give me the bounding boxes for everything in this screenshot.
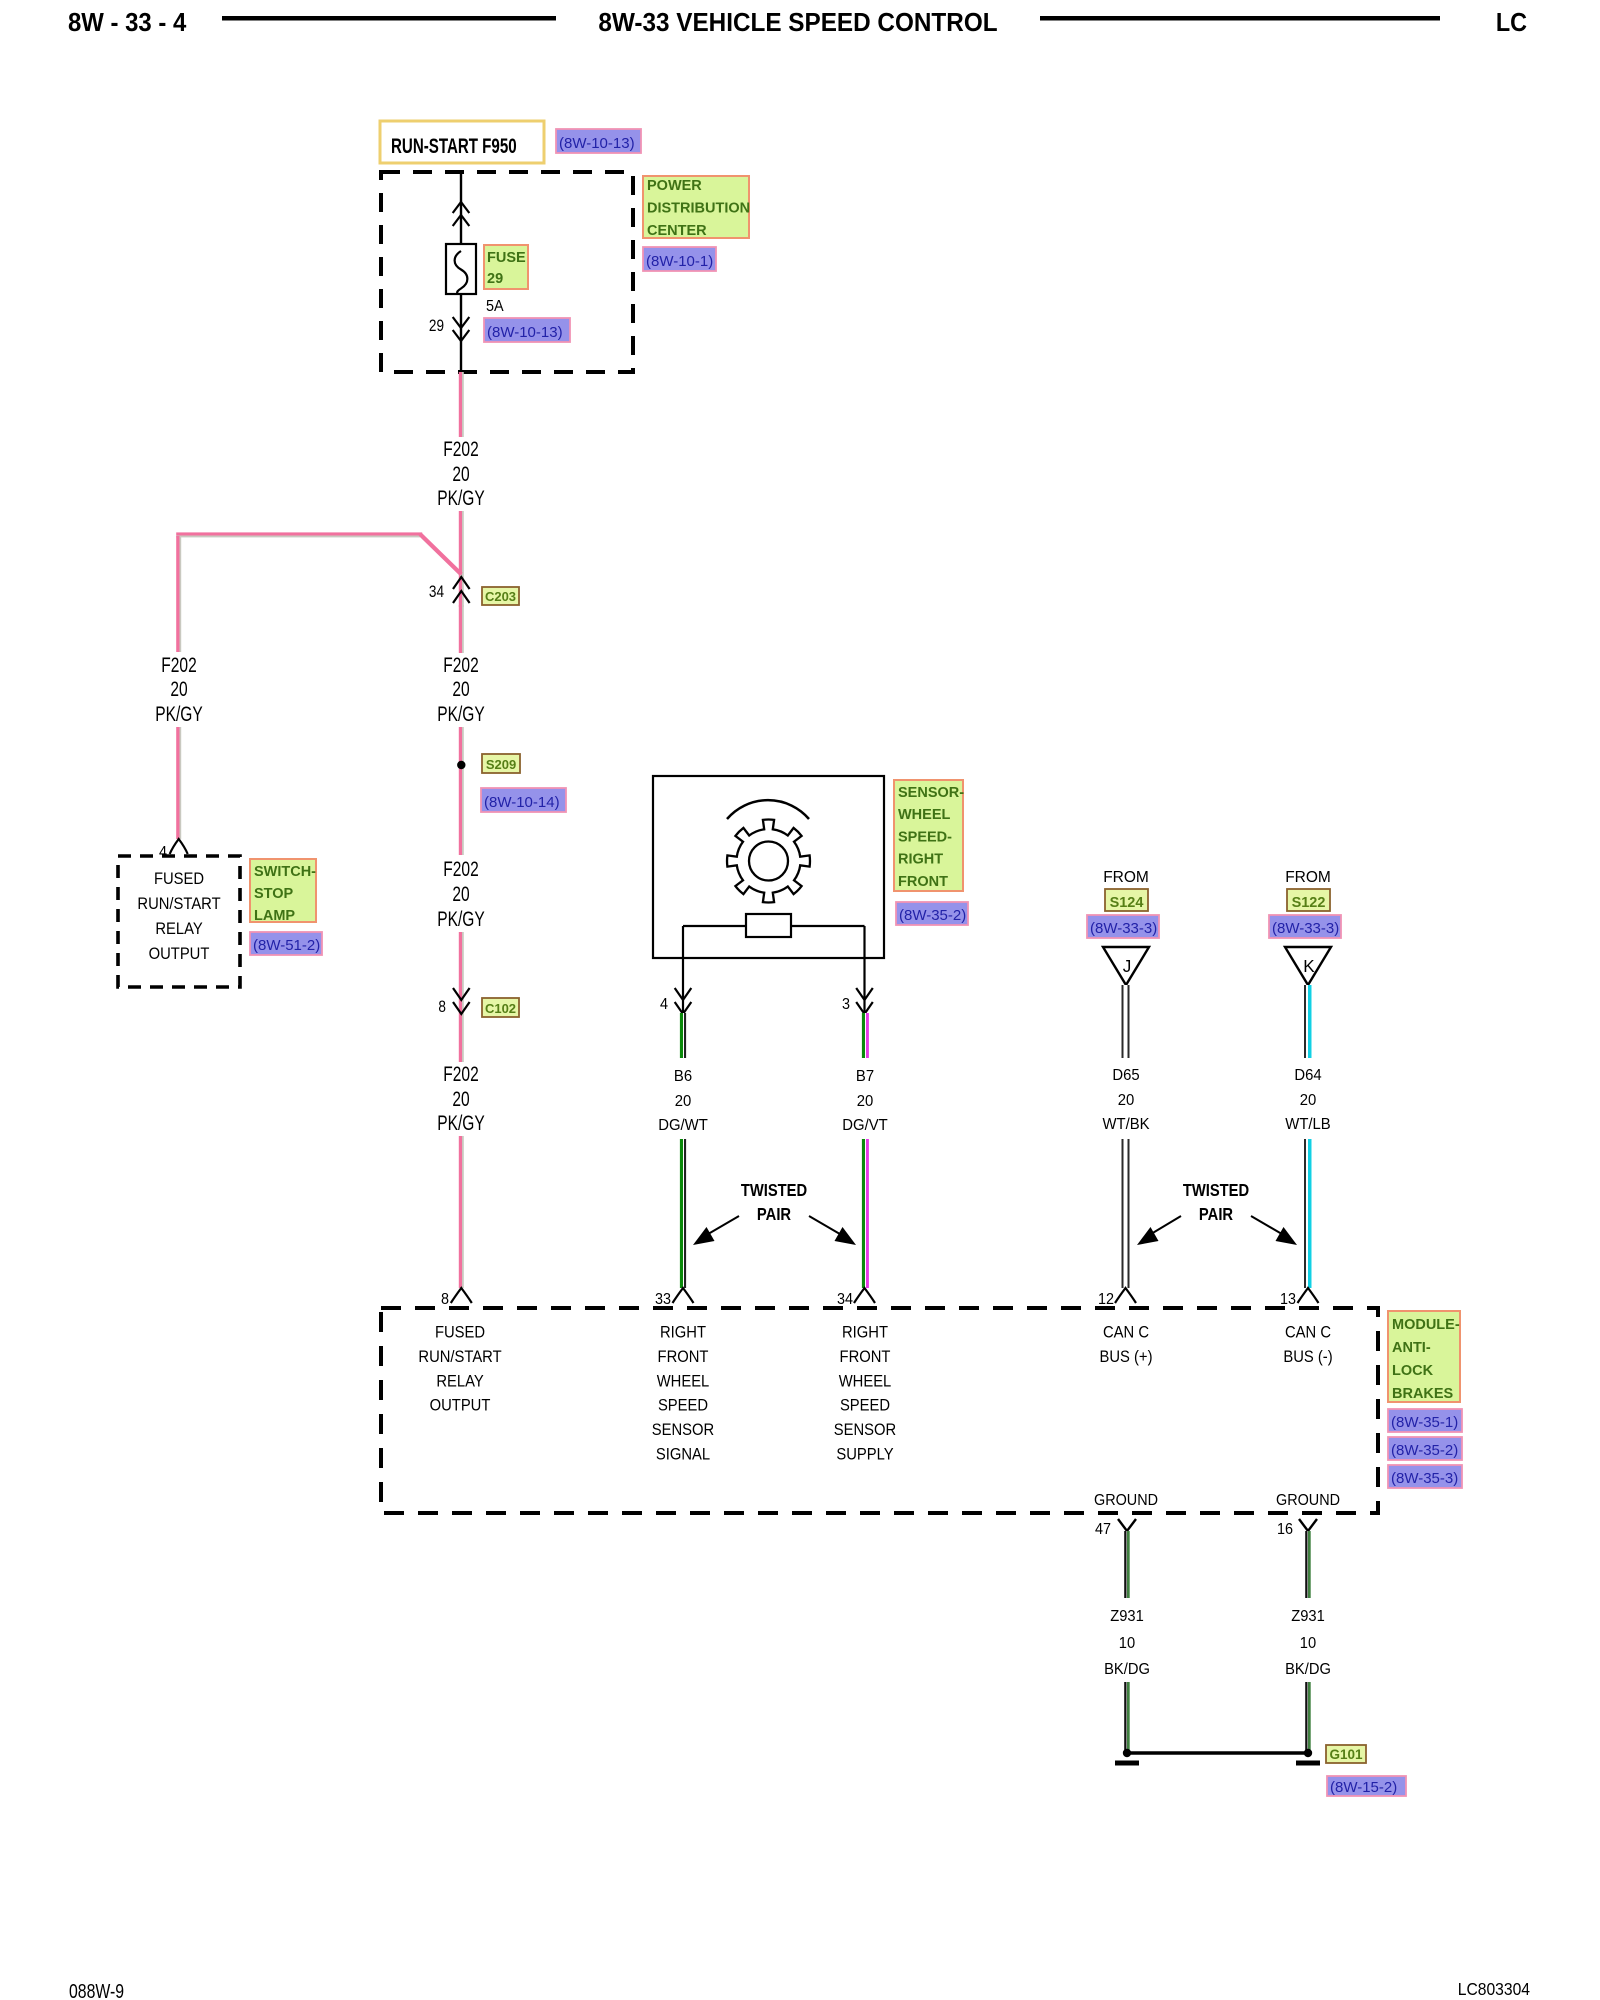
svg-text:(8W-35-2): (8W-35-2) xyxy=(899,907,966,924)
sensor-wheel speed-right front box xyxy=(653,776,884,958)
wire F202 segment 4 xyxy=(459,727,464,855)
svg-text:OUTPUT: OUTPUT xyxy=(149,945,210,963)
wire B7 segment 2 xyxy=(862,1139,869,1288)
svg-text:S124: S124 xyxy=(1110,895,1144,911)
svg-text:BK/DG: BK/DG xyxy=(1285,1661,1331,1678)
svg-text:47: 47 xyxy=(1095,1520,1111,1538)
twisted pair label left xyxy=(741,1181,807,1225)
wire F202 segment 1 xyxy=(459,372,464,437)
fuse 29 symbol xyxy=(446,244,476,294)
svg-text:TWISTED: TWISTED xyxy=(1183,1181,1249,1201)
module pin function texts xyxy=(418,1324,1332,1464)
svg-text:BUS (+): BUS (+) xyxy=(1100,1348,1153,1366)
twisted pair arrow left-right xyxy=(809,1216,845,1237)
svg-text:PK/GY: PK/GY xyxy=(155,702,202,726)
svg-text:12: 12 xyxy=(1098,1290,1114,1308)
pin chevron 34 xyxy=(854,1288,875,1303)
svg-text:10: 10 xyxy=(1300,1635,1316,1652)
svg-text:8: 8 xyxy=(438,998,446,1017)
svg-text:G101: G101 xyxy=(1329,1747,1363,1762)
reference label 8W-35-3 xyxy=(1388,1465,1462,1488)
svg-text:FUSED: FUSED xyxy=(435,1324,485,1342)
svg-text:PAIR: PAIR xyxy=(757,1205,791,1225)
svg-text:(8W-51-2): (8W-51-2) xyxy=(253,937,320,954)
wire D64 segment 2 xyxy=(1304,1139,1312,1288)
wire B6 segment 2 xyxy=(680,1139,686,1288)
svg-text:FROM: FROM xyxy=(1103,869,1149,886)
wire F202 segment 3 xyxy=(459,605,464,653)
reference label 8W-35-1 xyxy=(1388,1409,1462,1432)
label FUSE 29 xyxy=(484,245,528,289)
twisted pair arrow left-left xyxy=(703,1216,739,1237)
svg-text:20: 20 xyxy=(452,462,469,486)
svg-text:20: 20 xyxy=(1300,1092,1317,1110)
wire F202 segment 7 xyxy=(459,1136,464,1288)
svg-text:CAN C: CAN C xyxy=(1103,1324,1149,1342)
module anti-lock brakes box xyxy=(381,1308,1378,1513)
pin chevron relay output xyxy=(170,839,188,854)
wire F202 left branch vertical 2 xyxy=(176,727,181,839)
svg-text:10: 10 xyxy=(1119,1635,1135,1652)
svg-text:RIGHT: RIGHT xyxy=(660,1324,706,1342)
svg-text:29: 29 xyxy=(429,317,444,336)
wire fuse feed lower xyxy=(460,294,462,372)
reference label 8W-33-3 left xyxy=(1087,915,1159,938)
svg-text:GROUND: GROUND xyxy=(1094,1492,1158,1510)
svg-text:RIGHT: RIGHT xyxy=(842,1324,888,1342)
svg-text:20: 20 xyxy=(857,1093,874,1111)
svg-text:SPEED: SPEED xyxy=(840,1397,890,1415)
pin chevron 33 xyxy=(673,1288,694,1303)
svg-text:CAN C: CAN C xyxy=(1285,1324,1331,1342)
svg-text:F202: F202 xyxy=(161,653,196,677)
power distribution center box xyxy=(381,172,633,372)
svg-text:8W-33 VEHICLE SPEED CONTROL: 8W-33 VEHICLE SPEED CONTROL xyxy=(598,8,997,37)
svg-text:SPEED: SPEED xyxy=(658,1397,708,1415)
svg-text:BRAKES: BRAKES xyxy=(1392,1386,1454,1402)
sensor pin 4 double chevron xyxy=(675,988,692,1000)
svg-text:WT/LB: WT/LB xyxy=(1285,1116,1330,1134)
svg-text:LC803304: LC803304 xyxy=(1458,1979,1530,1999)
label SWITCH-STOP LAMP xyxy=(250,859,316,924)
reference label 8W-10-1 xyxy=(643,247,716,271)
ground bus G101 xyxy=(1123,1749,1312,1757)
connector C203 double chevron xyxy=(453,577,470,589)
sensor pickup arc xyxy=(727,800,809,819)
fused run/start relay output box xyxy=(118,856,240,987)
wire F202 branch horizontal xyxy=(176,532,422,537)
svg-text:F202: F202 xyxy=(443,857,478,881)
svg-text:LAMP: LAMP xyxy=(254,908,295,924)
svg-text:FRONT: FRONT xyxy=(898,874,948,890)
svg-text:RIGHT: RIGHT xyxy=(898,852,943,868)
wire fuse feed upper xyxy=(460,171,462,252)
svg-text:RELAY: RELAY xyxy=(155,920,203,938)
svg-text:(8W-33-3): (8W-33-3) xyxy=(1272,920,1339,937)
svg-text:29: 29 xyxy=(487,271,503,287)
svg-text:GROUND: GROUND xyxy=(1276,1492,1340,1510)
reference label 8W-10-13 top xyxy=(556,129,641,153)
svg-text:DG/WT: DG/WT xyxy=(658,1117,708,1135)
wire Z931 left segment 2 xyxy=(1124,1682,1130,1750)
svg-text:FROM: FROM xyxy=(1285,869,1331,886)
svg-text:D64: D64 xyxy=(1294,1067,1322,1085)
reference label 8W-35-2 sensor xyxy=(896,902,968,925)
svg-text:PK/GY: PK/GY xyxy=(437,702,484,726)
off-page connector J xyxy=(1103,947,1149,985)
svg-text:F202: F202 xyxy=(443,437,478,461)
svg-text:4: 4 xyxy=(660,995,669,1013)
double chevron down 1 xyxy=(453,317,470,328)
svg-text:FUSED: FUSED xyxy=(154,870,204,888)
splice label S209 xyxy=(482,754,520,773)
connector C102 double chevron xyxy=(453,988,470,1000)
off-page connector K xyxy=(1285,947,1331,985)
svg-text:20: 20 xyxy=(675,1093,692,1111)
svg-text:PK/GY: PK/GY xyxy=(437,1111,484,1135)
svg-text:20: 20 xyxy=(1118,1092,1135,1110)
label SENSOR-WHEEL SPEED-RIGHT FRONT xyxy=(894,780,964,891)
svg-text:34: 34 xyxy=(429,583,445,602)
svg-text:PAIR: PAIR xyxy=(1199,1205,1233,1225)
svg-text:8: 8 xyxy=(441,1290,449,1308)
svg-text:RUN/START: RUN/START xyxy=(418,1348,501,1366)
svg-text:Z931: Z931 xyxy=(1110,1608,1144,1625)
svg-text:RUN-START F950: RUN-START F950 xyxy=(391,133,517,157)
svg-text:J: J xyxy=(1123,956,1132,977)
svg-text:20: 20 xyxy=(452,1087,469,1111)
header rule left xyxy=(222,16,556,21)
svg-text:(8W-35-1): (8W-35-1) xyxy=(1391,1414,1458,1431)
svg-text:C203: C203 xyxy=(485,589,516,604)
splice label S124 xyxy=(1105,889,1148,911)
ground symbol left xyxy=(1115,1761,1139,1766)
svg-text:(8W-15-2): (8W-15-2) xyxy=(1330,1779,1397,1796)
sensor pin 3 double chevron xyxy=(856,988,873,1000)
svg-text:DISTRIBUTION: DISTRIBUTION xyxy=(647,201,750,217)
svg-text:(8W-10-13): (8W-10-13) xyxy=(559,135,635,152)
svg-text:B6: B6 xyxy=(674,1068,692,1086)
pin chevron 16 xyxy=(1299,1519,1317,1531)
svg-text:D65: D65 xyxy=(1112,1067,1139,1085)
svg-text:CENTER: CENTER xyxy=(647,223,707,239)
pin chevron 47 xyxy=(1118,1519,1136,1531)
reference label 8W-35-2 xyxy=(1388,1437,1462,1460)
svg-text:ANTI-: ANTI- xyxy=(1392,1340,1431,1356)
svg-text:20: 20 xyxy=(452,882,469,906)
wire D64 segment 1 xyxy=(1304,985,1312,1058)
svg-text:PK/GY: PK/GY xyxy=(437,486,484,510)
ground label G101 xyxy=(1326,1745,1366,1763)
svg-text:(8W-35-2): (8W-35-2) xyxy=(1391,1442,1458,1459)
sensor lead right xyxy=(863,926,865,1012)
reference label 8W-10-14 xyxy=(481,788,566,812)
svg-text:DG/VT: DG/VT xyxy=(842,1117,888,1135)
svg-text:C102: C102 xyxy=(485,1001,516,1016)
svg-text:WHEEL: WHEEL xyxy=(839,1372,892,1390)
svg-text:SENSOR-: SENSOR- xyxy=(898,785,964,801)
twisted pair arrow right-right xyxy=(1251,1216,1287,1237)
sensor tone wheel gear xyxy=(727,820,810,903)
reference label 8W-15-2 xyxy=(1327,1776,1406,1796)
svg-text:K: K xyxy=(1303,956,1315,977)
svg-text:8W - 33 - 4: 8W - 33 - 4 xyxy=(68,8,186,37)
svg-text:20: 20 xyxy=(452,677,469,701)
svg-text:OUTPUT: OUTPUT xyxy=(430,1397,491,1415)
sensor lead left xyxy=(682,926,684,1012)
svg-text:SIGNAL: SIGNAL xyxy=(656,1446,710,1464)
svg-text:3: 3 xyxy=(842,995,850,1013)
svg-text:Z931: Z931 xyxy=(1291,1608,1325,1625)
reference label 8W-33-3 right xyxy=(1269,915,1341,938)
svg-text:PK/GY: PK/GY xyxy=(437,907,484,931)
svg-text:POWER: POWER xyxy=(647,178,702,194)
svg-text:B7: B7 xyxy=(856,1068,874,1086)
svg-text:088W-9: 088W-9 xyxy=(69,1980,124,2000)
svg-text:BUS (-): BUS (-) xyxy=(1283,1348,1332,1366)
svg-text:TWISTED: TWISTED xyxy=(741,1181,807,1201)
connector label C102 xyxy=(482,998,519,1017)
svg-text:BK/DG: BK/DG xyxy=(1104,1661,1150,1678)
label MODULE-ANTI-LOCK BRAKES xyxy=(1388,1311,1460,1402)
ground symbol right xyxy=(1296,1761,1320,1766)
svg-text:SENSOR: SENSOR xyxy=(834,1421,896,1439)
svg-text:SENSOR: SENSOR xyxy=(652,1421,714,1439)
svg-text:S209: S209 xyxy=(486,757,516,772)
splice label S122 xyxy=(1287,889,1330,911)
wire Z931 left segment 1 xyxy=(1124,1531,1130,1598)
svg-text:STOP: STOP xyxy=(254,886,294,902)
svg-text:34: 34 xyxy=(837,1290,854,1308)
svg-text:16: 16 xyxy=(1277,1520,1293,1538)
svg-text:(8W-10-14): (8W-10-14) xyxy=(484,794,560,811)
svg-text:(8W-33-3): (8W-33-3) xyxy=(1090,920,1157,937)
double chevron up 1 xyxy=(453,202,470,213)
wire F202 segment 2 xyxy=(459,511,464,607)
wire Z931 right segment 1 xyxy=(1305,1531,1311,1598)
reference label 8W-51-2 xyxy=(250,932,322,955)
sensor internal bus xyxy=(683,925,865,927)
svg-text:4: 4 xyxy=(159,843,168,861)
svg-text:MODULE-: MODULE- xyxy=(1392,1317,1460,1333)
pin chevron 13 xyxy=(1298,1288,1319,1303)
svg-text:S122: S122 xyxy=(1292,895,1326,911)
svg-text:FRONT: FRONT xyxy=(658,1348,709,1366)
svg-text:FUSE: FUSE xyxy=(487,250,526,266)
svg-text:RELAY: RELAY xyxy=(436,1372,484,1390)
svg-text:(8W-10-1): (8W-10-1) xyxy=(646,253,713,270)
svg-text:F202: F202 xyxy=(443,653,478,677)
pin chevron 12 xyxy=(1115,1288,1136,1303)
svg-text:LOCK: LOCK xyxy=(1392,1363,1434,1379)
svg-text:F202: F202 xyxy=(443,1062,478,1086)
svg-text:WHEEL: WHEEL xyxy=(898,807,951,823)
wire F202 left branch vertical 1 xyxy=(176,536,181,652)
label POWER DISTRIBUTION CENTER xyxy=(643,176,750,239)
reference label 8W-10-13 mid xyxy=(484,318,570,342)
connector label C203 xyxy=(482,587,519,605)
svg-text:SWITCH-: SWITCH- xyxy=(254,864,316,880)
svg-text:SPEED-: SPEED- xyxy=(898,829,952,845)
twisted pair arrow right-left xyxy=(1146,1216,1181,1237)
svg-text:SUPPLY: SUPPLY xyxy=(836,1446,894,1464)
wire D65 segment 2 xyxy=(1122,1139,1130,1288)
fuse F950 RUN-START box xyxy=(380,121,544,163)
wire B7 segment 1 xyxy=(862,1013,869,1058)
svg-text:FRONT: FRONT xyxy=(840,1348,891,1366)
svg-text:33: 33 xyxy=(655,1290,671,1308)
svg-text:WHEEL: WHEEL xyxy=(657,1372,710,1390)
svg-text:13: 13 xyxy=(1280,1290,1296,1308)
header rule right xyxy=(1040,16,1440,21)
svg-text:WT/BK: WT/BK xyxy=(1102,1116,1150,1134)
svg-text:20: 20 xyxy=(170,677,187,701)
wire F202 segment 5 xyxy=(459,932,464,1062)
svg-text:5A: 5A xyxy=(486,297,504,315)
svg-text:RUN/START: RUN/START xyxy=(137,895,220,913)
svg-text:(8W-35-3): (8W-35-3) xyxy=(1391,1470,1458,1487)
wire D65 segment 1 xyxy=(1122,985,1130,1058)
wire F202 branch diagonal xyxy=(422,537,463,577)
svg-text:LC: LC xyxy=(1496,9,1527,37)
splice S209 xyxy=(457,761,465,769)
sensor element xyxy=(746,914,791,937)
wire Z931 right segment 2 xyxy=(1305,1682,1311,1750)
wire B6 segment 1 xyxy=(680,1013,686,1058)
svg-text:(8W-10-13): (8W-10-13) xyxy=(487,324,563,341)
twisted pair label right xyxy=(1183,1181,1249,1225)
pin chevron 8 xyxy=(451,1288,472,1303)
